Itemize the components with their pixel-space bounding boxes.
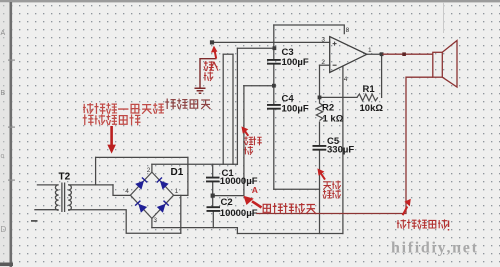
speaker LS1 box xyxy=(433,52,443,77)
wire pin1 xyxy=(174,194,188,196)
annotation arrow input xyxy=(211,46,218,59)
wire secondary top to pin4 xyxy=(113,185,130,196)
wire pin4 drop xyxy=(342,66,344,233)
wire C1 bottom to node A xyxy=(212,182,214,207)
wire C4 bottom down xyxy=(273,109,275,189)
op-amp plus xyxy=(333,42,337,46)
wire node A horizontal xyxy=(213,195,244,197)
wire bridge bottom stub xyxy=(151,218,153,227)
annotation text 接机箱壳 maroon xyxy=(165,99,210,110)
svg-text:A: A xyxy=(1,30,6,37)
wire vertical b xyxy=(232,54,234,164)
junction dot R2 top xyxy=(318,96,322,100)
faint pane edge top right xyxy=(443,2,444,33)
capacitor C5 xyxy=(313,146,327,150)
svg-text:hifidiy,net: hifidiy,net xyxy=(391,240,479,257)
annotation text 这条线一定不要 xyxy=(83,103,164,114)
capacitor C3 xyxy=(267,60,281,64)
wire C3 chain top xyxy=(273,25,275,59)
diode D1b top-right xyxy=(157,178,169,190)
maroon dot on output xyxy=(402,52,406,56)
svg-text:10000µF: 10000µF xyxy=(220,208,258,219)
svg-text:3: 3 xyxy=(321,37,325,44)
svg-text:4: 4 xyxy=(125,188,129,195)
wire C2 bottom xyxy=(212,211,214,227)
left panel strip xyxy=(0,2,10,267)
svg-text:2: 2 xyxy=(147,167,151,174)
svg-text:1: 1 xyxy=(368,47,372,54)
svg-text:330µF: 330µF xyxy=(327,145,354,156)
annotation arrow down to rail xyxy=(107,126,116,154)
svg-text:R2: R2 xyxy=(322,103,334,114)
bridge D1 outline xyxy=(130,172,173,218)
diode D1d bottom-right xyxy=(157,201,169,213)
annotation text 做地线回路 xyxy=(83,114,141,125)
maroon output wire to speaker xyxy=(383,53,433,55)
stray mark xyxy=(31,220,38,222)
wire C3 bottom to C4 top xyxy=(273,64,275,104)
svg-text:D: D xyxy=(1,225,7,234)
annotation arrow 退藕地 xyxy=(241,126,248,135)
wire C5 bottom xyxy=(319,150,321,233)
capacitor C4 xyxy=(267,105,281,109)
svg-text:A: A xyxy=(252,185,258,195)
wire R1 left link xyxy=(320,96,358,98)
annotation arrow 负反馈地 xyxy=(317,168,325,179)
resistor R1 horizontal zigzag xyxy=(357,94,378,101)
annotation text 功放输出地 xyxy=(397,219,447,229)
wire minus drop xyxy=(319,65,321,103)
wire pin3 rail xyxy=(152,228,238,234)
capacitor C2 xyxy=(207,207,221,211)
annotation text 馈地 xyxy=(323,190,341,199)
svg-text:1 kΩ: 1 kΩ xyxy=(323,114,344,125)
left panel divider line xyxy=(10,2,13,267)
junction dot output R1 xyxy=(380,52,384,56)
wire top rail left drop xyxy=(95,157,97,185)
wire vertical a xyxy=(222,54,224,164)
annotation text 退藕地 xyxy=(244,136,262,155)
wire bridge ab xyxy=(223,53,233,55)
wire star ground riser xyxy=(243,86,245,196)
wire output xyxy=(367,53,383,55)
resistor R2 vertical zigzag xyxy=(316,103,322,121)
svg-text:4: 4 xyxy=(344,76,348,83)
svg-text:R1: R1 xyxy=(363,84,376,95)
input ground bracket maroon xyxy=(200,59,217,88)
wire bridge top stub xyxy=(151,164,153,172)
junction dot ground mid xyxy=(272,84,276,88)
svg-text:3: 3 xyxy=(153,217,157,224)
wire b horizontal xyxy=(237,47,274,49)
wire R1 right riser xyxy=(381,54,383,97)
annotation exclamation xyxy=(448,221,450,231)
op-amp minus xyxy=(333,64,337,66)
annotation arrow 星形接地点 xyxy=(243,196,261,208)
wire top rail right drop to pin1 xyxy=(187,157,189,195)
svg-text:100µF: 100µF xyxy=(282,57,309,68)
wire pin1 down to bottom xyxy=(180,195,182,233)
svg-text:8: 8 xyxy=(346,27,350,34)
left panel bottom block xyxy=(0,263,13,267)
wire secondary bottom xyxy=(69,210,181,234)
annotation text 星形接地点 xyxy=(263,203,316,213)
speaker bottom wire xyxy=(256,77,433,213)
svg-text:C2: C2 xyxy=(221,197,233,208)
wire ground tap to C3C4 mid xyxy=(244,85,274,87)
svg-text:10kΩ: 10kΩ xyxy=(360,103,384,114)
capacitor C1 xyxy=(206,178,220,182)
wire secondary top xyxy=(69,184,113,186)
wire vminus bottom rail xyxy=(237,233,343,235)
wire vminus link xyxy=(274,188,320,190)
svg-text:B: B xyxy=(1,90,6,97)
wire R2 to C5 xyxy=(319,122,321,145)
annotation text 输入地 xyxy=(204,61,218,81)
left panel tick3 xyxy=(8,180,15,181)
diode D1a top-left xyxy=(135,178,147,190)
svg-text:100µF: 100µF xyxy=(282,104,309,115)
junction dot wireB C3 xyxy=(273,46,277,50)
svg-text:D1: D1 xyxy=(171,167,184,178)
left panel tick xyxy=(8,60,15,61)
wire minus pin xyxy=(320,64,330,66)
annotation arrow 功放输出地 xyxy=(403,199,411,215)
speaker cone xyxy=(442,41,457,88)
op-amp U1 triangle xyxy=(330,37,367,73)
svg-text:2: 2 xyxy=(321,59,325,66)
diode D1c bottom-left xyxy=(135,201,147,213)
svg-text:1: 1 xyxy=(175,188,179,195)
wire vertical c xyxy=(236,48,238,164)
wire C1 top tap xyxy=(212,164,214,177)
junction dot node A xyxy=(211,194,215,198)
wire vcc to pin8 xyxy=(274,25,345,34)
left panel tick2 xyxy=(8,127,15,128)
junction dot input xyxy=(210,40,214,44)
wire input to plus pin xyxy=(212,41,330,43)
svg-text:o: o xyxy=(1,153,5,160)
transformer T2 xyxy=(34,183,71,213)
wire vplus rail xyxy=(152,163,238,165)
svg-text:T2: T2 xyxy=(59,172,71,183)
top window border xyxy=(0,0,500,2)
annotation text 负反 xyxy=(323,181,340,190)
ground symbol chassis xyxy=(195,88,206,93)
wire top rail transformer to bridge pin1 xyxy=(96,156,188,158)
